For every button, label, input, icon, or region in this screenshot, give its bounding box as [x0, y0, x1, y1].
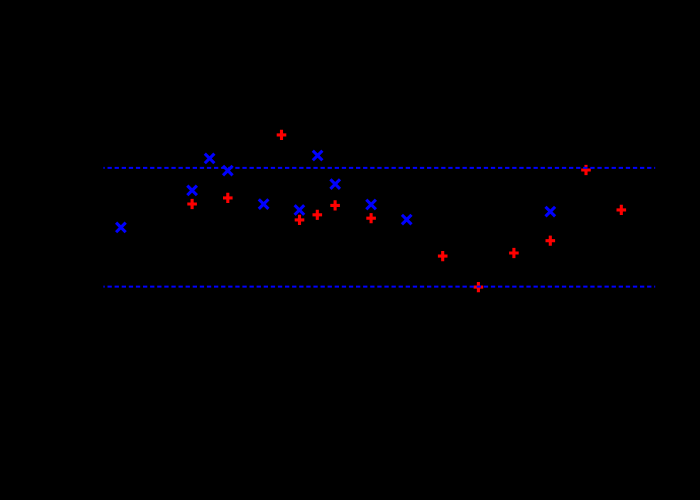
point P4: [295, 215, 305, 225]
point P8: [438, 251, 448, 261]
point X6: [295, 205, 305, 215]
point X7: [313, 151, 323, 161]
point P7: [366, 213, 376, 223]
point X5: [259, 199, 269, 209]
point P2: [223, 193, 233, 203]
upper dashed reference line: [103, 167, 655, 169]
point X11: [546, 207, 556, 217]
point X3: [205, 154, 215, 164]
point P3: [277, 130, 287, 140]
point X10: [402, 215, 412, 225]
lower dashed reference line: [103, 286, 655, 288]
point P5: [313, 210, 323, 220]
point X1: [116, 223, 126, 233]
point X2: [187, 186, 197, 196]
point X8: [330, 179, 340, 189]
point P6: [330, 200, 340, 210]
point P11: [546, 236, 556, 246]
point P9: [474, 282, 484, 292]
point P12: [581, 165, 591, 175]
point X9: [366, 200, 376, 210]
point X4: [223, 166, 233, 176]
point P13: [617, 205, 627, 215]
blue X data points: [116, 151, 555, 233]
point P1: [187, 199, 197, 209]
red + data points: [187, 130, 626, 292]
point P10: [509, 248, 519, 258]
